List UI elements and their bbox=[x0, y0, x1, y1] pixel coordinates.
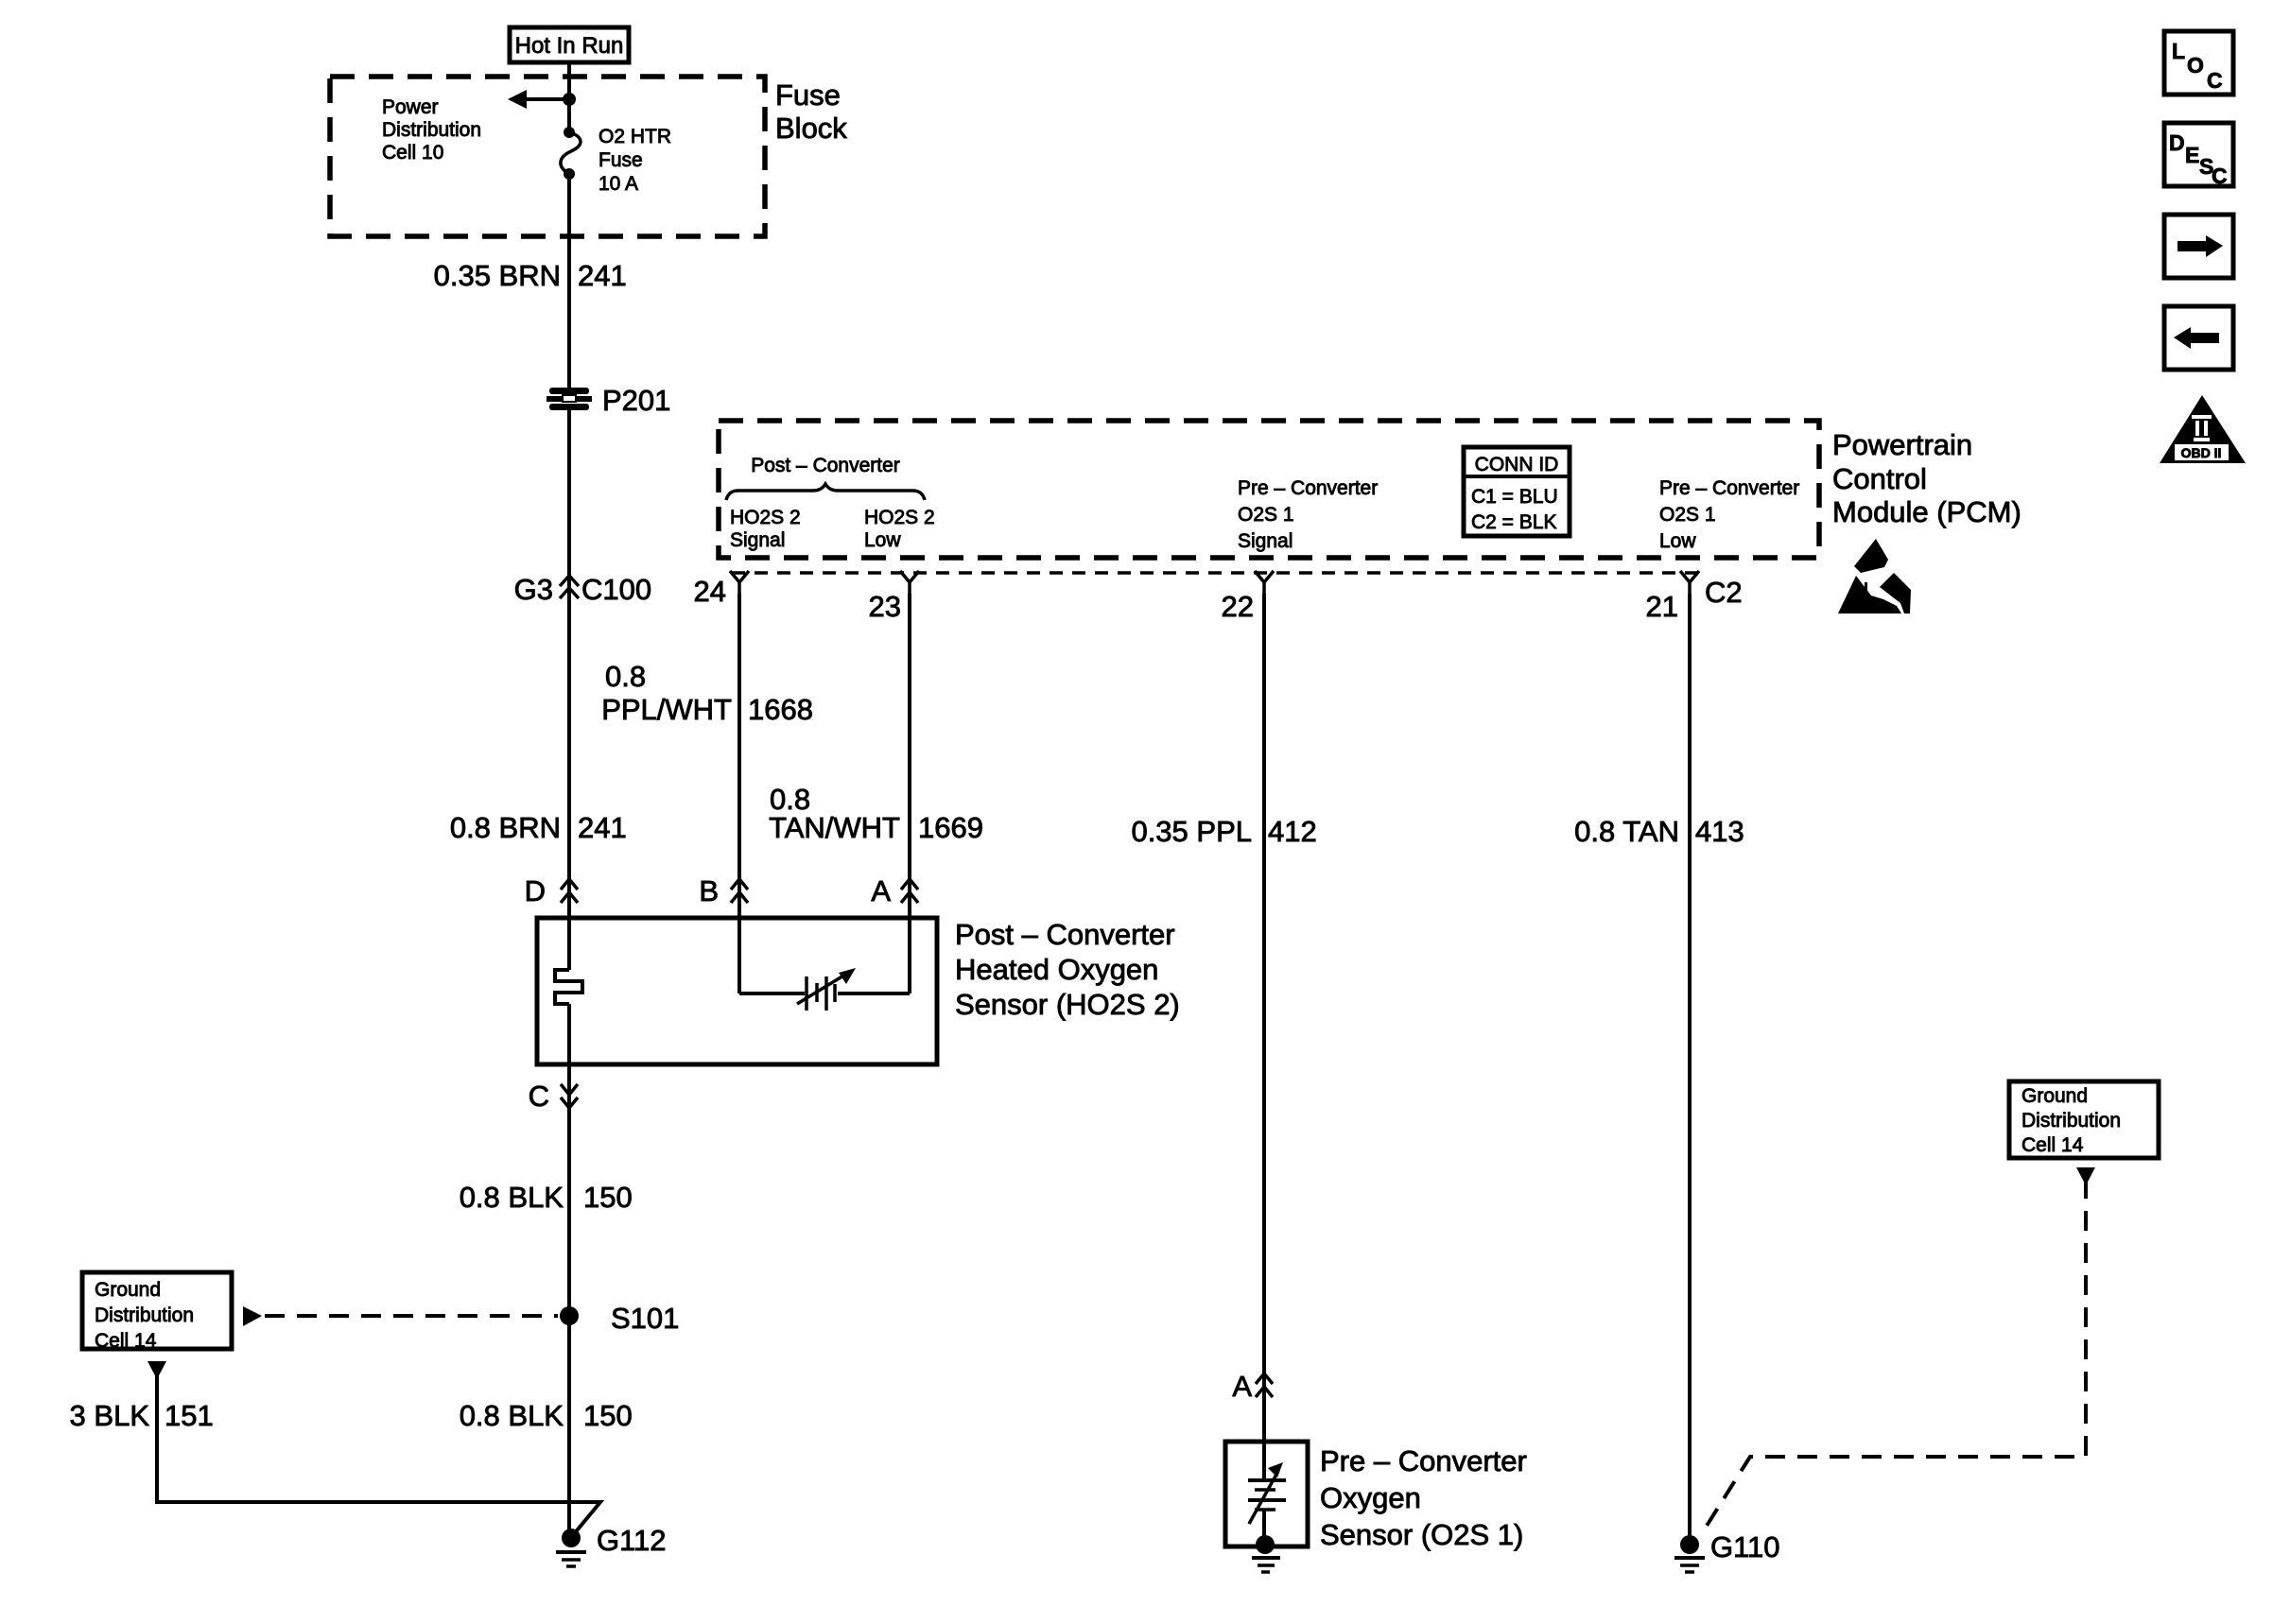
wire 0.35 BRN 241 from fuse to P201 bbox=[567, 174, 571, 389]
terminal C chevrons down bbox=[529, 1080, 578, 1113]
svg-text:Low: Low bbox=[1659, 530, 1696, 552]
svg-text:PPL/WHT: PPL/WHT bbox=[601, 693, 732, 726]
svg-text:P201: P201 bbox=[602, 384, 670, 417]
wire from Hot In Run into fuse block bbox=[567, 62, 571, 132]
terminal A chevrons on wire 22 bbox=[1232, 1370, 1273, 1403]
svg-text:Heated Oxygen: Heated Oxygen bbox=[955, 953, 1158, 986]
svg-text:413: 413 bbox=[1695, 815, 1744, 848]
icon OBD II triangle bbox=[2160, 395, 2246, 463]
svg-text:0.35 PPL: 0.35 PPL bbox=[1131, 815, 1252, 848]
icon back arrow box bbox=[2164, 306, 2233, 370]
fuse block name label bbox=[775, 78, 847, 145]
svg-text:HO2S 2: HO2S 2 bbox=[730, 507, 801, 528]
svg-text:L: L bbox=[2172, 39, 2185, 63]
wire arrow to Power Distribution Cell 10 bbox=[508, 90, 569, 109]
svg-text:0.8 BLK: 0.8 BLK bbox=[460, 1181, 564, 1214]
pin 22 Y terminal bbox=[1222, 571, 1274, 623]
svg-text:HO2S 2: HO2S 2 bbox=[864, 507, 935, 528]
svg-text:C: C bbox=[2207, 68, 2223, 93]
icon forward arrow box bbox=[2164, 215, 2233, 278]
ground wire 3 BLK 151 branch bbox=[147, 1361, 600, 1535]
svg-text:Signal: Signal bbox=[1238, 530, 1293, 552]
wire label 0.8 TAN 413 bbox=[1574, 815, 1744, 848]
ground G112 bbox=[556, 1524, 667, 1566]
wire label 0.35 BRN 241 bbox=[434, 259, 627, 292]
svg-text:Distribution: Distribution bbox=[382, 119, 481, 141]
wire 22 PPL 412 bbox=[1262, 594, 1266, 1442]
dashed reference to S101 bbox=[243, 1306, 558, 1326]
svg-text:C2: C2 bbox=[1705, 576, 1743, 609]
svg-text:Block: Block bbox=[775, 112, 847, 145]
O2S 1 sensor ground dot and symbol bbox=[1252, 1535, 1280, 1572]
svg-text:G3: G3 bbox=[514, 573, 553, 606]
PCM dashed box bbox=[719, 421, 1819, 558]
svg-text:Fuse: Fuse bbox=[599, 149, 643, 171]
svg-text:Ground: Ground bbox=[95, 1279, 161, 1301]
wire 24 PPL/WHT 1668 bbox=[737, 594, 741, 993]
svg-text:Distribution: Distribution bbox=[2021, 1110, 2121, 1132]
splice S101 bbox=[560, 1302, 679, 1335]
Power Distribution Cell 10 text bbox=[382, 96, 481, 164]
junction dot in fuse block bbox=[563, 93, 576, 106]
svg-text:CONN ID: CONN ID bbox=[1475, 454, 1559, 475]
terminal B chevrons bbox=[699, 874, 748, 907]
ESD sensitive device symbol bbox=[1838, 539, 1911, 613]
svg-text:Hot In Run: Hot In Run bbox=[515, 33, 624, 59]
PCM name label bbox=[1832, 428, 2021, 528]
svg-text:E: E bbox=[2185, 143, 2199, 167]
svg-text:Post – Converter: Post – Converter bbox=[955, 918, 1175, 951]
node Hot In Run label bbox=[510, 27, 629, 62]
svg-text:3 BLK: 3 BLK bbox=[70, 1399, 150, 1432]
terminal A chevrons bbox=[871, 874, 918, 907]
wire 21 TAN 413 bbox=[1688, 594, 1692, 1538]
icon DESC box bbox=[2164, 123, 2233, 188]
wire label 3 BLK 151 bbox=[70, 1399, 214, 1432]
fuse block dashed box bbox=[330, 77, 765, 236]
svg-text:O: O bbox=[2187, 53, 2204, 78]
svg-text:0.8 BRN: 0.8 BRN bbox=[450, 811, 561, 844]
heater element symbol bbox=[555, 970, 582, 1004]
svg-text:24: 24 bbox=[694, 575, 726, 608]
svg-text:O2S 1: O2S 1 bbox=[1659, 504, 1716, 526]
svg-text:23: 23 bbox=[869, 590, 901, 623]
svg-text:150: 150 bbox=[583, 1181, 633, 1214]
svg-text:241: 241 bbox=[578, 811, 627, 844]
svg-text:G112: G112 bbox=[597, 1524, 667, 1557]
wire below sensor to G112 bbox=[567, 1004, 571, 1538]
PCM connector face dashed line bbox=[732, 571, 1700, 575]
svg-text:Pre – Converter: Pre – Converter bbox=[1238, 477, 1378, 499]
pin label Pre-Converter O2S 1 Low bbox=[1659, 477, 1799, 552]
svg-text:Powertrain: Powertrain bbox=[1832, 428, 1972, 461]
pin 21 Y terminal C2 bbox=[1646, 571, 1743, 623]
svg-text:Cell 14: Cell 14 bbox=[95, 1330, 157, 1352]
ground distribution cell 14 box right bbox=[2009, 1081, 2159, 1158]
grommet P201 bbox=[547, 388, 592, 410]
HO2S 2 sensor name label bbox=[955, 918, 1180, 1021]
sensor element wires inside box bbox=[739, 992, 910, 995]
svg-text:C: C bbox=[529, 1080, 549, 1113]
O2S 1 sensor name label bbox=[1320, 1444, 1527, 1551]
wire label 0.8 BRN 241 bbox=[450, 811, 627, 844]
svg-text:O2 HTR: O2 HTR bbox=[599, 126, 671, 147]
svg-text:D: D bbox=[2169, 130, 2185, 155]
svg-text:TAN/WHT: TAN/WHT bbox=[769, 811, 900, 844]
svg-text:Cell 10: Cell 10 bbox=[382, 142, 443, 164]
fuse value label O2 HTR Fuse 10 A bbox=[599, 126, 671, 195]
HO2S 2 sensor box bbox=[537, 918, 937, 1064]
CONN ID table bbox=[1464, 447, 1570, 536]
O2S 1 sensor box bbox=[1225, 1442, 1308, 1546]
svg-text:G110: G110 bbox=[1710, 1530, 1780, 1564]
svg-text:Signal: Signal bbox=[730, 529, 785, 551]
dashed reference from right cell 14 to G110 bbox=[1702, 1167, 2095, 1533]
svg-text:Module (PCM): Module (PCM) bbox=[1832, 495, 2021, 528]
svg-text:B: B bbox=[699, 874, 719, 907]
svg-text:1668: 1668 bbox=[748, 693, 813, 726]
svg-text:C100: C100 bbox=[581, 573, 651, 606]
wire 23 TAN/WHT 1669 bbox=[908, 594, 911, 993]
svg-text:151: 151 bbox=[165, 1399, 214, 1432]
ground G110 bbox=[1674, 1530, 1780, 1572]
svg-text:Cell 14: Cell 14 bbox=[2021, 1134, 2084, 1156]
wire label 0.8 BLK 150 lower bbox=[460, 1399, 633, 1432]
svg-text:Control: Control bbox=[1832, 462, 1927, 495]
svg-text:0.8 BLK: 0.8 BLK bbox=[460, 1399, 564, 1432]
svg-text:150: 150 bbox=[583, 1399, 633, 1432]
svg-text:Ground: Ground bbox=[2021, 1085, 2088, 1107]
ground distribution cell 14 box left bbox=[82, 1272, 232, 1352]
svg-text:Pre – Converter: Pre – Converter bbox=[1659, 477, 1799, 499]
pin 24 Y terminal bbox=[694, 571, 749, 608]
svg-text:22: 22 bbox=[1222, 590, 1254, 623]
svg-text:0.35 BRN: 0.35 BRN bbox=[434, 259, 561, 292]
svg-text:Pre – Converter: Pre – Converter bbox=[1320, 1444, 1527, 1477]
svg-text:C1 = BLU: C1 = BLU bbox=[1471, 486, 1558, 508]
O2S 1 sensor element symbol bbox=[1248, 1442, 1286, 1545]
wire label 0.8 TAN/WHT 1669 bbox=[769, 783, 983, 844]
pin label HO2S 2 Low bbox=[864, 507, 935, 551]
svg-text:241: 241 bbox=[578, 259, 627, 292]
svg-text:Power: Power bbox=[382, 96, 439, 118]
svg-text:0.8 TAN: 0.8 TAN bbox=[1574, 815, 1679, 848]
terminal D chevrons bbox=[525, 874, 578, 907]
pin 23 Y terminal bbox=[869, 571, 919, 623]
wire label 0.35 PPL 412 bbox=[1131, 815, 1316, 848]
svg-text:10 A: 10 A bbox=[599, 173, 638, 195]
fuse O2 HTR 10A symbol bbox=[561, 127, 581, 180]
icon LOC box bbox=[2164, 31, 2233, 95]
svg-text:C: C bbox=[2212, 164, 2228, 188]
svg-text:C2 = BLK: C2 = BLK bbox=[1471, 511, 1556, 533]
svg-text:A: A bbox=[871, 874, 891, 907]
svg-text:Post – Converter: Post – Converter bbox=[751, 455, 900, 476]
svg-text:OBD II: OBD II bbox=[2181, 445, 2222, 460]
svg-text:21: 21 bbox=[1646, 590, 1678, 623]
svg-text:O2S 1: O2S 1 bbox=[1238, 504, 1294, 526]
svg-text:A: A bbox=[1232, 1370, 1252, 1403]
svg-text:Low: Low bbox=[864, 529, 901, 551]
svg-text:Fuse: Fuse bbox=[775, 78, 841, 112]
wire P201 to C100 to sensor bbox=[567, 409, 571, 970]
wire label 0.8 PPL/WHT 1668 bbox=[601, 660, 813, 726]
wire label 0.8 BLK 150 upper bbox=[460, 1181, 633, 1214]
brace under Post-Converter bbox=[726, 484, 925, 500]
svg-text:Sensor (O2S 1): Sensor (O2S 1) bbox=[1320, 1518, 1523, 1551]
connector G3 C100 chevrons bbox=[514, 573, 651, 606]
svg-text:S101: S101 bbox=[611, 1302, 679, 1335]
svg-text:412: 412 bbox=[1268, 815, 1317, 848]
svg-text:Oxygen: Oxygen bbox=[1320, 1481, 1421, 1514]
svg-text:Sensor (HO2S 2): Sensor (HO2S 2) bbox=[955, 988, 1180, 1021]
pin label Pre-Converter O2S 1 Signal bbox=[1238, 477, 1378, 552]
svg-text:0.8: 0.8 bbox=[605, 660, 646, 693]
svg-text:Distribution: Distribution bbox=[95, 1304, 194, 1326]
svg-text:D: D bbox=[525, 874, 546, 907]
variable sensor element symbol bbox=[797, 968, 856, 1011]
pin label HO2S 2 Signal bbox=[730, 507, 801, 551]
svg-text:1669: 1669 bbox=[918, 811, 983, 844]
